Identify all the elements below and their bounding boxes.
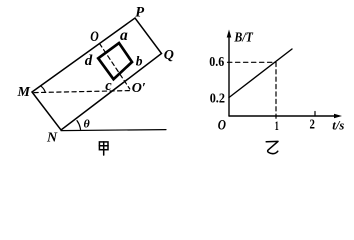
svg-text:M: M [17,85,31,100]
dashed level 0.6 [228,61,277,63]
svg-text:2: 2 [310,117,316,132]
angle arc at M [41,86,45,92]
incline surface parallelogram M-P-Q-N [32,18,162,130]
svg-text:θ: θ [84,117,91,131]
dashed rotation axis O to O' [100,44,130,90]
caption jia (Chinese) drawn as strokes [99,142,108,155]
svg-text:O′: O′ [132,81,146,96]
svg-text:b: b [136,54,143,69]
svg-text:0.2: 0.2 [210,92,225,107]
dashed vertical at t=1 [275,62,277,119]
graph y axis [228,34,230,116]
angle theta arc at N [77,121,81,130]
svg-text:1: 1 [275,118,279,133]
svg-text:0.6: 0.6 [209,55,224,70]
svg-text:c: c [105,78,112,94]
svg-text:t/s: t/s [332,117,344,132]
tick at t=2 [314,112,316,117]
svg-text:O: O [90,29,99,45]
B(t) line [229,49,292,98]
svg-text:N: N [46,131,58,146]
svg-text:O: O [218,118,227,134]
svg-text:d: d [85,53,93,69]
caption yi (Chinese) drawn as strokes [266,141,278,153]
svg-text:P: P [135,5,144,21]
conducting loop abcd [98,43,132,79]
graph x axis [229,115,339,117]
svg-text:a: a [120,27,128,44]
ground line [61,130,166,131]
graph x axis arrowhead [334,114,342,119]
svg-text:B/T: B/T [234,30,255,45]
dashed horizontal line M to O' [34,91,130,93]
svg-text:Q: Q [164,48,174,63]
graph y axis arrowhead [227,30,232,38]
